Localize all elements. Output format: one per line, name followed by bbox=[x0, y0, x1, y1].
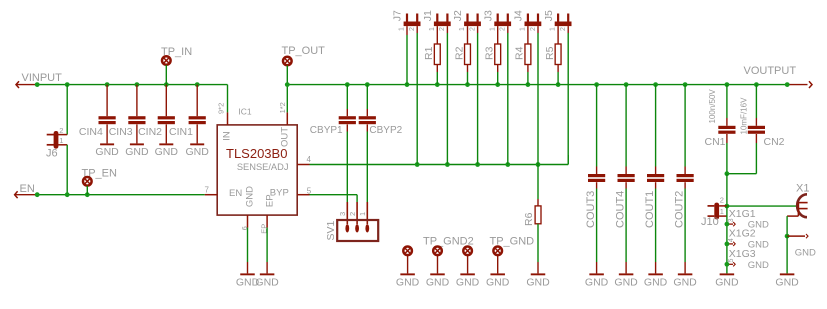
ground bbox=[260, 273, 275, 275]
svg-text:GND: GND bbox=[715, 277, 739, 289]
svg-text:EN: EN bbox=[20, 183, 35, 195]
junction bbox=[505, 162, 510, 167]
svg-text:J4: J4 bbox=[513, 10, 525, 21]
junction bbox=[495, 82, 500, 87]
wire bbox=[467, 65, 469, 73]
capacitor COUT1 bbox=[655, 85, 657, 167]
wire CN1 down bbox=[726, 143, 728, 174]
pin IN (9*2) bbox=[227, 112, 229, 125]
wire CN2 down bbox=[755, 143, 757, 174]
svg-text:1: 1 bbox=[550, 27, 557, 31]
wire bbox=[655, 189, 657, 263]
ground bbox=[780, 273, 795, 275]
ground bbox=[619, 273, 634, 275]
svg-text:R1: R1 bbox=[423, 46, 435, 60]
svg-text:COUT2: COUT2 bbox=[673, 191, 685, 228]
ground bbox=[100, 143, 114, 145]
ground bbox=[130, 143, 144, 145]
svg-text:GND: GND bbox=[795, 247, 816, 258]
junction bbox=[105, 82, 110, 87]
svg-text:10mF/16V: 10mF/16V bbox=[740, 97, 749, 135]
svg-text:1: 1 bbox=[520, 27, 527, 31]
svg-text:GND: GND bbox=[614, 277, 638, 289]
svg-text:CN2: CN2 bbox=[764, 136, 785, 148]
wire J4 pad1 lead bbox=[527, 26, 529, 44]
svg-text:CBYP2: CBYP2 bbox=[369, 125, 402, 136]
resistor R2 bbox=[465, 44, 471, 65]
wire SENSE to R6 bbox=[537, 165, 539, 200]
ground bbox=[648, 273, 663, 275]
svg-text:COUT4: COUT4 bbox=[614, 191, 626, 228]
svg-text:X1G2: X1G2 bbox=[729, 228, 756, 240]
svg-text:SV1: SV1 bbox=[325, 220, 337, 240]
junction bbox=[725, 222, 730, 227]
svg-text:GND: GND bbox=[526, 277, 550, 289]
jumper J4 bbox=[525, 22, 542, 27]
wire VIN rail bbox=[37, 84, 227, 86]
svg-text:1: 1 bbox=[459, 27, 466, 31]
svg-text:GND: GND bbox=[155, 146, 179, 158]
svg-text:GND: GND bbox=[186, 146, 210, 158]
jumper J3 bbox=[494, 22, 511, 27]
wire J1 pad1 lead bbox=[436, 26, 438, 44]
wire bbox=[497, 65, 499, 73]
ground bbox=[720, 273, 735, 275]
svg-text:GND: GND bbox=[644, 277, 668, 289]
svg-text:1: 1 bbox=[399, 27, 406, 31]
junction bbox=[164, 82, 169, 87]
svg-text:7: 7 bbox=[205, 185, 210, 194]
resistor R6 bbox=[535, 206, 541, 224]
resistor R3 bbox=[495, 44, 501, 65]
junction bbox=[135, 82, 140, 87]
junction bbox=[415, 162, 420, 167]
junction bbox=[85, 192, 90, 197]
svg-text:2: 2 bbox=[720, 195, 724, 204]
junction bbox=[365, 82, 370, 87]
junction bbox=[526, 82, 531, 87]
wire BYP to SV1 bbox=[310, 194, 358, 196]
svg-text:R5: R5 bbox=[544, 46, 556, 60]
wire IN pin drop bbox=[227, 85, 229, 113]
pin EN 7 bbox=[205, 194, 217, 196]
wire down to X1 node bbox=[726, 174, 728, 206]
junction bbox=[435, 82, 440, 87]
pin EP 9 bbox=[266, 215, 268, 228]
svg-text:GND: GND bbox=[125, 146, 149, 158]
wire bbox=[684, 189, 686, 263]
svg-text:2: 2 bbox=[59, 126, 63, 135]
svg-text:2: 2 bbox=[500, 27, 507, 31]
wire J3 pad2 to SENSE bbox=[507, 26, 509, 33]
ground bbox=[190, 143, 204, 145]
ground bbox=[531, 273, 546, 275]
svg-text:EN: EN bbox=[229, 188, 242, 199]
wire VOUT rail bbox=[287, 84, 787, 86]
svg-text:GND: GND bbox=[396, 277, 420, 289]
svg-text:1: 1 bbox=[59, 136, 63, 145]
junction bbox=[683, 82, 688, 87]
wire X1 gnd drop bbox=[786, 216, 788, 236]
wire SENSE rail bbox=[310, 164, 569, 166]
svg-text:GND: GND bbox=[456, 277, 480, 289]
svg-text:9*2: 9*2 bbox=[217, 103, 226, 114]
capacitor COUT2 bbox=[684, 85, 686, 167]
capacitor CBYP1 bbox=[346, 85, 348, 109]
svg-text:IC1: IC1 bbox=[238, 107, 252, 117]
svg-text:CN1: CN1 bbox=[705, 136, 726, 148]
connector SV1 bbox=[337, 220, 378, 241]
svg-text:1: 1 bbox=[429, 27, 436, 31]
svg-text:TP_OUT: TP_OUT bbox=[282, 45, 326, 57]
wire J2 pad1 lead bbox=[467, 26, 469, 44]
junction bbox=[754, 82, 759, 87]
wire bbox=[436, 65, 438, 73]
wire OUT pin drop bbox=[286, 85, 288, 113]
svg-text:J3: J3 bbox=[482, 10, 494, 21]
svg-text:R4: R4 bbox=[514, 46, 526, 60]
wire CN tie bbox=[727, 173, 757, 175]
svg-text:CIN2: CIN2 bbox=[138, 126, 162, 138]
wire R6 down bbox=[537, 224, 539, 262]
pin GND 6 bbox=[247, 215, 249, 228]
svg-text:4: 4 bbox=[307, 155, 312, 164]
svg-text:GND: GND bbox=[775, 277, 799, 289]
resistor R4 bbox=[525, 44, 531, 65]
svg-text:2: 2 bbox=[530, 27, 537, 31]
wire bbox=[527, 65, 529, 73]
svg-text:COUT3: COUT3 bbox=[585, 191, 597, 228]
capacitor CIN3 bbox=[136, 85, 138, 117]
svg-text:R6: R6 bbox=[523, 212, 535, 226]
svg-text:VOUTPUT: VOUTPUT bbox=[744, 65, 797, 77]
wire J5 pad1 lead bbox=[557, 26, 559, 44]
svg-text:CIN3: CIN3 bbox=[109, 126, 133, 138]
svg-text:2: 2 bbox=[439, 27, 446, 31]
wire J2 pad2 to SENSE bbox=[477, 26, 479, 33]
junction bbox=[725, 242, 730, 247]
wire J7 pad2 to SENSE bbox=[416, 26, 418, 33]
svg-text:OUT: OUT bbox=[280, 127, 291, 147]
svg-text:R2: R2 bbox=[453, 46, 465, 60]
junction bbox=[35, 192, 40, 197]
test point TP_GND bbox=[403, 247, 412, 256]
svg-text:GND: GND bbox=[673, 277, 697, 289]
wire CBYP2 to SV1 bbox=[366, 132, 368, 203]
wire J5 pad2 to SENSE bbox=[567, 26, 569, 33]
svg-text:GND: GND bbox=[585, 277, 609, 289]
svg-text:CBYP1: CBYP1 bbox=[310, 125, 343, 136]
wire J3 pad1 lead bbox=[497, 26, 499, 44]
IC IC1 TLS203B0 bbox=[217, 125, 297, 215]
junction bbox=[405, 82, 410, 87]
junction bbox=[594, 82, 599, 87]
wire IC EP pin down bbox=[266, 228, 268, 262]
svg-text:GND: GND bbox=[426, 277, 450, 289]
net flag VOUTPUT bbox=[787, 84, 807, 86]
svg-text:VINPUT: VINPUT bbox=[22, 72, 63, 84]
svg-text:TLS203B0: TLS203B0 bbox=[226, 146, 287, 161]
capacitor COUT3 bbox=[596, 85, 598, 167]
wire bbox=[625, 189, 627, 263]
wire X1G chain bbox=[726, 206, 728, 273]
svg-text:2: 2 bbox=[348, 212, 357, 216]
wire bbox=[786, 236, 788, 273]
svg-text:J5: J5 bbox=[543, 10, 555, 21]
ground bbox=[678, 273, 693, 275]
svg-text:J7: J7 bbox=[392, 10, 404, 21]
svg-text:J6: J6 bbox=[46, 148, 58, 160]
wire bbox=[596, 189, 598, 263]
ground bbox=[430, 273, 445, 275]
svg-text:2: 2 bbox=[560, 27, 567, 31]
junction bbox=[35, 82, 40, 87]
junction bbox=[653, 82, 658, 87]
svg-text:2: 2 bbox=[469, 27, 476, 31]
svg-text:J10: J10 bbox=[701, 216, 719, 228]
svg-text:IN: IN bbox=[222, 131, 233, 141]
junction bbox=[195, 82, 200, 87]
junction bbox=[785, 234, 790, 239]
capacitor CBYP2 bbox=[366, 85, 368, 109]
pin BYP 5 bbox=[297, 194, 309, 196]
jumper J10 bbox=[708, 205, 715, 207]
svg-text:CIN4: CIN4 bbox=[79, 126, 103, 138]
junction bbox=[785, 82, 790, 87]
svg-text:4: 4 bbox=[728, 238, 735, 242]
ground bbox=[460, 273, 475, 275]
junction bbox=[285, 82, 290, 87]
svg-text:1: 1 bbox=[489, 27, 496, 31]
junction bbox=[465, 82, 470, 87]
jumper J1 bbox=[434, 22, 451, 27]
svg-text:1: 1 bbox=[720, 207, 724, 216]
junction bbox=[725, 82, 730, 87]
wire bbox=[406, 26, 408, 35]
svg-text:GND: GND bbox=[95, 146, 119, 158]
svg-text:3: 3 bbox=[338, 212, 347, 216]
junction bbox=[65, 82, 70, 87]
ground bbox=[589, 273, 604, 275]
pin SENSE/ADJ 4 bbox=[297, 164, 309, 166]
capacitor CIN2 bbox=[165, 85, 167, 117]
svg-text:R3: R3 bbox=[484, 46, 496, 60]
svg-text:2: 2 bbox=[409, 27, 416, 31]
svg-text:100n/50V: 100n/50V bbox=[708, 89, 717, 124]
net flag EN bbox=[15, 191, 18, 198]
jumper J7 bbox=[404, 22, 421, 27]
svg-text:X1: X1 bbox=[796, 182, 809, 194]
capacitor CIN1 bbox=[196, 85, 198, 117]
junction bbox=[445, 162, 450, 167]
jumper J6 bbox=[66, 85, 68, 135]
junction bbox=[475, 162, 480, 167]
capacitor COUT4 bbox=[625, 85, 627, 167]
wire J6 to EN rail bbox=[66, 145, 68, 195]
wire bbox=[557, 65, 559, 73]
junction bbox=[725, 262, 730, 267]
svg-text:J2: J2 bbox=[452, 10, 464, 21]
svg-text:GND: GND bbox=[748, 260, 769, 271]
junction bbox=[556, 82, 561, 87]
wire CBYP1 to SV1 bbox=[346, 132, 348, 203]
junction bbox=[536, 162, 541, 167]
capacitor CN1 100n/50V bbox=[726, 85, 728, 118]
test point TP_GND bbox=[463, 247, 472, 256]
junction bbox=[725, 204, 730, 209]
svg-text:3: 3 bbox=[728, 218, 735, 222]
capacitor CIN4 bbox=[106, 85, 108, 117]
ground bbox=[240, 273, 255, 275]
svg-text:GND: GND bbox=[255, 277, 279, 289]
svg-text:X1G3: X1G3 bbox=[729, 248, 756, 260]
svg-text:5: 5 bbox=[728, 259, 735, 263]
pin X1 sleeve bbox=[787, 235, 805, 237]
svg-text:X1G1: X1G1 bbox=[729, 208, 756, 220]
ground bbox=[400, 273, 415, 275]
jumper J5 bbox=[555, 22, 572, 27]
resistor R5 bbox=[555, 44, 561, 65]
junction bbox=[345, 82, 350, 87]
wire X1 rail bbox=[727, 205, 797, 207]
junction bbox=[624, 82, 629, 87]
svg-text:COUT1: COUT1 bbox=[644, 191, 656, 228]
svg-text:J1: J1 bbox=[422, 10, 434, 21]
wire IC GND pin down bbox=[247, 228, 249, 262]
wire J1 pad2 to SENSE bbox=[446, 26, 448, 33]
svg-text:GND: GND bbox=[486, 277, 510, 289]
svg-text:1*2: 1*2 bbox=[278, 102, 287, 113]
junction bbox=[725, 171, 730, 176]
svg-text:SENSE/ADJ: SENSE/ADJ bbox=[237, 162, 289, 172]
capacitor CN2 10mF/16V bbox=[755, 85, 757, 118]
svg-text:1: 1 bbox=[358, 212, 367, 216]
junction bbox=[65, 192, 70, 197]
ground bbox=[490, 273, 505, 275]
svg-text:BYP: BYP bbox=[270, 187, 289, 198]
wire EN rail bbox=[37, 194, 205, 196]
net flag VINPUT bbox=[16, 81, 19, 88]
pin OUT (1*2) bbox=[286, 112, 288, 125]
jumper J2 bbox=[464, 22, 481, 27]
svg-text:CIN1: CIN1 bbox=[169, 126, 193, 138]
wire J4 pad2 to SENSE bbox=[537, 26, 539, 33]
resistor R1 bbox=[434, 44, 440, 65]
svg-text:GND: GND bbox=[244, 186, 255, 207]
ground bbox=[159, 143, 173, 145]
